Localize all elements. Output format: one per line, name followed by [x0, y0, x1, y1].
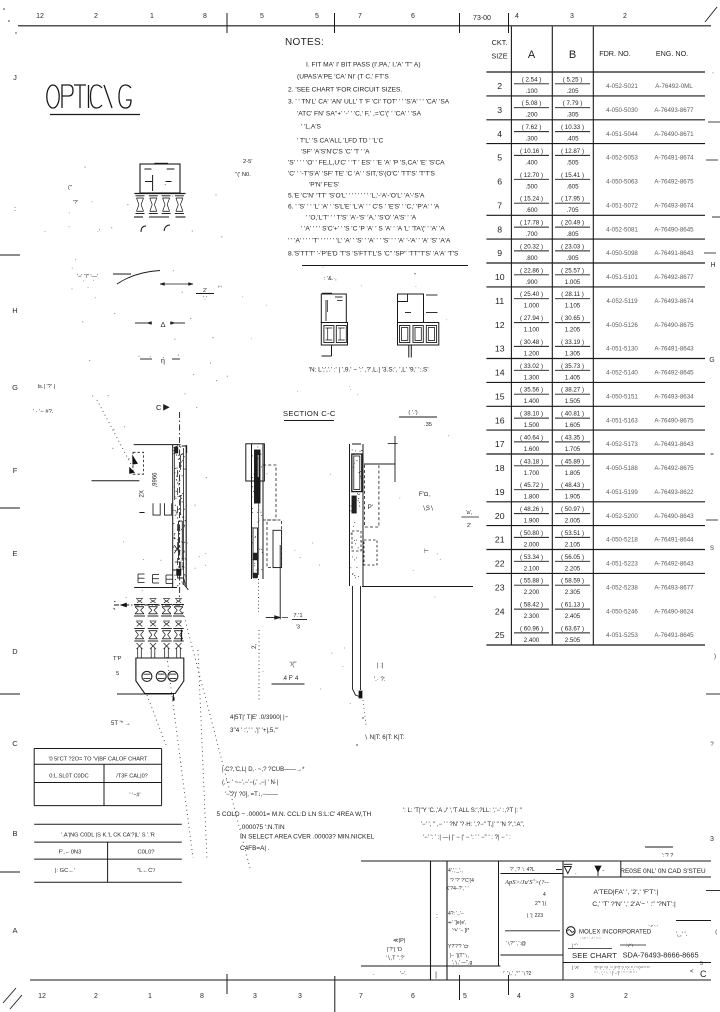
svg-text:4|5T|' T|E′ .0/3900| |−: 4|5T|' T|E′ .0/3900| |−	[230, 714, 289, 721]
svg-text:': L: 'T|′'Y 'C.,'A ,/' ′,'T A: ': L: 'T|′'Y 'C.,'A ,/' ′,'T ALL S:',?LL…	[403, 808, 523, 814]
svg-text:4: 4	[515, 13, 519, 20]
svg-text:( 50.80 ): ( 50.80 )	[520, 530, 543, 537]
svg-text:7: 7	[359, 993, 363, 1000]
svg-text:1.405: 1.405	[565, 374, 581, 381]
svg-text:' 'A' ' ' ' S'C'+' ' 'S 'C 'P: ' 'A' ' ' ' S'C'+' ' 'S 'C 'P 'A' ' S 'A…	[301, 225, 445, 232]
svg-text:.205: .205	[566, 88, 579, 95]
svg-text:1.205: 1.205	[565, 327, 581, 334]
svg-text:( 58.59 ): ( 58.59 )	[561, 578, 584, 585]
svg-text:'3: '3	[296, 625, 300, 631]
svg-text:| 'A': | 'A'	[572, 965, 579, 970]
svg-text:( 17.78 ): ( 17.78 )	[520, 220, 543, 227]
svg-text:2.100: 2.100	[524, 565, 540, 572]
svg-text:.800: .800	[525, 255, 538, 262]
svg-text:.305: .305	[566, 112, 579, 119]
svg-text:'′ ' · ', ' ′· ' |' −′|′ ' ′': '′ ' · ', ' ′· ' |' −′|′ ' ′' ′ ' ′′' '′…	[594, 971, 637, 976]
svg-text:2: 2	[94, 993, 98, 1000]
svg-text:( 38.10 ): ( 38.10 )	[520, 411, 543, 418]
svg-text:':′? ?: ':′? ?	[662, 853, 673, 859]
svg-text:4-050-5063: 4-050-5063	[606, 179, 638, 186]
svg-text:4-050-5246: 4-050-5246	[606, 608, 638, 615]
svg-text:A-76490-8675: A-76490-8675	[654, 322, 694, 329]
svg-text:( 43.18 ): ( 43.18 )	[520, 458, 543, 465]
svg-text:1: 1	[150, 13, 154, 20]
svg-text:'−′ '7' '—′: '−′ '7' '—′	[77, 274, 98, 280]
svg-text:19: 19	[495, 487, 505, 497]
svg-text:<: <	[690, 969, 694, 975]
svg-text:' 'L,A'S: ' 'L,A'S	[301, 123, 322, 130]
svg-text:( 35.56 ): ( 35.56 )	[520, 387, 543, 394]
svg-text:F'Ω,: F'Ω,	[419, 492, 430, 498]
svg-text:): )	[714, 654, 716, 660]
svg-text:'/('′: '/('′	[289, 662, 297, 668]
svg-text:A-76492-8675: A-76492-8675	[654, 179, 694, 186]
svg-text:1.000: 1.000	[524, 303, 540, 310]
svg-text:( 50.97 ): ( 50.97 )	[561, 506, 584, 513]
svg-text:| :|: | :|	[377, 663, 384, 669]
svg-text:16: 16	[495, 415, 505, 425]
svg-text:8.'S'TT'T' '-'P'E'D 'T'S 'S'FT: 8.'S'TT'T' '-'P'E'D 'T'S 'S'FTT'L'S 'C''…	[288, 250, 459, 257]
svg-text:.300: .300	[525, 136, 538, 143]
svg-text:14: 14	[495, 368, 505, 378]
svg-text:( 33.19 ): ( 33.19 )	[561, 339, 584, 346]
svg-text:'′L←C'/: '′L←C'/	[137, 868, 156, 874]
svg-text:NOTES:: NOTES:	[285, 37, 324, 48]
svg-text:A-76493-8677: A-76493-8677	[654, 107, 694, 114]
svg-text:2.405: 2.405	[565, 613, 581, 620]
svg-text:A-76493-8674: A-76493-8674	[654, 202, 694, 209]
svg-text:( 28.11 ): ( 28.11 )	[561, 291, 584, 298]
svg-text:5: 5	[463, 993, 467, 1000]
svg-text:( 35.73 ): ( 35.73 )	[561, 363, 584, 370]
svg-text:.805: .805	[566, 231, 579, 238]
svg-text:A-76493-8674: A-76493-8674	[654, 298, 694, 305]
svg-text:∖ N|T: 6|T: K|T:: ∖ N|T: 6|T: K|T:	[364, 734, 405, 741]
svg-text:1.505: 1.505	[565, 398, 581, 405]
svg-text:2.005: 2.005	[565, 518, 581, 525]
svg-text:∖S∖: ∖S∖	[422, 506, 434, 512]
svg-text:A-76492-8675: A-76492-8675	[654, 465, 694, 472]
svg-text:5: 5	[260, 13, 264, 20]
svg-text:A-76490-8645: A-76490-8645	[654, 226, 694, 233]
svg-text:.705: .705	[566, 207, 579, 214]
svg-text:|'?'( 'D: |'?'( 'D	[387, 947, 402, 953]
svg-text:.000075 ':N.TIN: .000075 ':N.TIN	[240, 824, 285, 831]
svg-text:1.800: 1.800	[524, 494, 540, 501]
svg-text:20: 20	[495, 511, 505, 521]
svg-text:' 'O,'L'T' ' ' T'S' 'A'-'S' 'A: ' 'O,'L'T' ' ' T'S' 'A'-'S' 'A,' 'S'O' '…	[306, 214, 417, 221]
svg-text:?' ,'? '↕ 4?L: ?' ,'? '↕ 4?L	[510, 867, 535, 873]
svg-text:( 30.48 ): ( 30.48 )	[520, 339, 543, 346]
svg-text:⁻⁴' '·': ⁻⁴' '·'	[648, 924, 658, 929]
svg-text:( 55.88 ): ( 55.88 )	[520, 578, 543, 585]
svg-text:4-052-5200: 4-052-5200	[606, 513, 638, 520]
svg-text:( 2.54 ): ( 2.54 )	[522, 76, 542, 83]
svg-text:12: 12	[495, 320, 505, 330]
svg-text:⟨: ⟨	[715, 929, 717, 936]
svg-text:ENG. NO.: ENG. NO.	[656, 49, 688, 58]
svg-text:G: G	[709, 357, 714, 364]
svg-text:15: 15	[495, 391, 505, 401]
svg-text:C0L0?: C0L0?	[137, 850, 155, 856]
svg-text:IN SELECT AREA CVER .00003? MI: IN SELECT AREA CVER .00003? MIN.NICKEL	[240, 834, 375, 841]
svg-text:K'?4−?', ' ': K'?4−?', ' '	[446, 886, 469, 892]
svg-text:A-76490-8643: A-76490-8643	[654, 513, 694, 520]
molex logo and name	[567, 927, 576, 936]
svg-text:.605: .605	[566, 183, 579, 190]
chart table grid and header	[510, 27, 512, 646]
svg-text:5: 5	[116, 671, 119, 677]
svg-text:ʪ.| '?' |: ʪ.| '?' |	[38, 384, 55, 390]
svg-text:.35: .35	[424, 422, 432, 428]
svg-text:C: C	[156, 403, 162, 412]
svg-text:2.300: 2.300	[524, 613, 540, 620]
svg-text:2X: 2X	[140, 490, 146, 497]
svg-text:3: 3	[570, 993, 574, 1000]
svg-text:( 61.13 ): ( 61.13 )	[561, 602, 584, 609]
svg-text:( 20.49 ): ( 20.49 )	[561, 220, 584, 227]
svg-text:⁚√'∖: ⁚√'∖	[626, 943, 634, 948]
svg-text:F′,←0N3: F′,←0N3	[59, 850, 82, 856]
svg-text:A-76493-8677: A-76493-8677	[654, 584, 694, 591]
svg-text:A-76491-8644: A-76491-8644	[654, 537, 694, 544]
svg-text:C,' 'T' ?'N' ',' 2'A'− ' :′' ': C,' 'T' ?'N' ',' 2'A'− ' :′' '?NT':|	[592, 901, 676, 908]
svg-text:A: A	[528, 49, 536, 61]
svg-text:.200: .200	[525, 112, 538, 119]
svg-text:T'P: T'P	[113, 656, 122, 662]
svg-text:4'.','_'.,: 4'.','_'.,	[448, 868, 463, 874]
drawing title OPTIC\ G stencil letters	[47, 85, 59, 108]
svg-text:2: 2	[624, 993, 628, 1000]
svg-text:1.600: 1.600	[524, 446, 540, 453]
svg-text:2.200: 2.200	[524, 589, 540, 596]
small mark above title block	[645, 846, 673, 848]
svg-text:'↷' '− ]l*: '↷' '− ]l*	[452, 928, 469, 934]
svg-text:4-052-5053: 4-052-5053	[606, 155, 638, 162]
svg-text:( 53.34 ): ( 53.34 )	[520, 554, 543, 561]
svg-text:2′: 2′	[467, 523, 471, 529]
svg-text:MOLEX INCORPORATED: MOLEX INCORPORATED	[579, 930, 652, 936]
svg-text:7: 7	[358, 13, 362, 20]
svg-text:1.005: 1.005	[565, 279, 581, 286]
svg-text:4-051-5101: 4-051-5101	[606, 274, 638, 281]
svg-text:.700: .700	[525, 231, 538, 238]
svg-text:4-052-5173: 4-052-5173	[606, 441, 638, 448]
svg-text:( 43.35 ): ( 43.35 )	[561, 434, 584, 441]
svg-text:12: 12	[38, 993, 46, 1000]
svg-text:'.· ?:: '.· ?:	[374, 677, 386, 683]
svg-text:⊢: ⊢	[424, 548, 429, 555]
svg-text:( 63.67 ): ( 63.67 )	[561, 625, 584, 632]
terminal pins rows 2-3	[137, 622, 143, 627]
svg-text:4-052-5119: 4-052-5119	[606, 298, 638, 305]
svg-text:J: J	[13, 73, 17, 82]
svg-text:5 COLD − .00001= M.N. CCL:D LN: 5 COLD − .00001= M.N. CCL:D LN S:L:C' 4R…	[217, 811, 372, 818]
svg-text:FDR. NO.: FDR. NO.	[599, 49, 631, 58]
svg-text:,9966: ,9966	[153, 472, 159, 488]
svg-text:: '&.·,: : '&.·,	[324, 276, 337, 282]
svg-text:=: =	[710, 452, 714, 458]
svg-text:'N: L';','.' :' | ',9.' ~ ':': 'N: L';','.' :' | ',9.' ~ ':' ,?',L.| '3…	[309, 367, 429, 374]
svg-text:( 5.08 ): ( 5.08 )	[522, 100, 542, 107]
svg-text:17: 17	[495, 439, 505, 449]
svg-text:E: E	[12, 549, 17, 558]
svg-text:A: A	[12, 926, 17, 935]
svg-text:4-052-5238: 4-052-5238	[606, 584, 638, 591]
svg-text:'∖,T ''.?': '∖,T ''.?'	[386, 956, 405, 962]
svg-text:'.A'|NG C0DL |S K.'L CK CA'?|L: '.A'|NG C0DL |S K.'L CK CA'?|L' S '.'R	[61, 833, 155, 839]
svg-text:( 38.27 ): ( 38.27 )	[561, 387, 584, 394]
svg-text:A-76492-8643: A-76492-8643	[654, 561, 694, 568]
svg-text:( 45.72 ): ( 45.72 )	[520, 482, 543, 489]
svg-text:SEE CHART: SEE CHART	[572, 951, 617, 960]
svg-text:11: 11	[495, 296, 504, 306]
svg-text:A-76491-8643: A-76491-8643	[654, 346, 694, 353]
svg-text:( 27.94 ): ( 27.94 )	[520, 315, 543, 322]
svg-text:4-051-5253: 4-051-5253	[606, 632, 638, 639]
svg-text:| C?,'C,L| D,· ~,? ?CUB——→*: | C?,'C,L| D,· ~,? ?CUB——→*	[222, 767, 305, 773]
svg-text:4-050-5151: 4-050-5151	[606, 393, 638, 400]
svg-text:SECTION C-C: SECTION C-C	[283, 409, 336, 418]
svg-text:C4FB=A| .: C4FB=A| .	[240, 845, 270, 852]
svg-text:( 56.05 ): ( 56.05 )	[561, 554, 584, 561]
svg-text:4-052-5021: 4-052-5021	[606, 83, 638, 90]
svg-text:( 15.24 ): ( 15.24 )	[520, 196, 543, 203]
svg-text:12: 12	[36, 13, 44, 20]
svg-text:.900: .900	[525, 279, 538, 286]
svg-text:A-76493-8622: A-76493-8622	[654, 489, 694, 496]
svg-text:( 10.16 ): ( 10.16 )	[520, 148, 543, 155]
svg-text::: :	[436, 913, 438, 920]
svg-text:3. ' ' TN'L' CA' 'AN' ULL' T ': 3. ' ' TN'L' CA' 'AN' ULL' T 'F 'CI' TOT…	[288, 98, 450, 105]
svg-text:.500: .500	[525, 183, 538, 190]
svg-text:( 58.42 ): ( 58.42 )	[520, 602, 543, 609]
svg-text:( 40.81 ): ( 40.81 )	[561, 411, 584, 418]
section view 1 (middle)	[246, 444, 265, 481]
svg-text:' T'L' 'S CA'ALL 'LFD TD ' 'L': ' T'L' 'S CA'ALL 'LFD TD ' 'L'C	[297, 137, 384, 144]
svg-text:4-050-5218: 4-050-5218	[606, 537, 638, 544]
svg-text:( '.′): ( '.′)	[408, 410, 417, 416]
svg-text:2: 2	[623, 13, 627, 20]
svg-text:H: H	[710, 262, 715, 269]
svg-text:2.305: 2.305	[565, 589, 581, 596]
svg-text:( 23.03 ): ( 23.03 )	[561, 243, 584, 250]
svg-text:1.105: 1.105	[565, 303, 581, 310]
svg-text:13: 13	[495, 344, 505, 354]
svg-text:'0 5l'CT ?2O= TO 'V|BF CALOF C: '0 5l'CT ?2O= TO 'V|BF CALOF CHART	[48, 757, 147, 763]
svg-text:( 30.65 ): ( 30.65 )	[561, 315, 584, 322]
svg-text:.: .	[575, 870, 577, 876]
svg-text:( 25.57 ): ( 25.57 )	[561, 267, 584, 274]
svg-text:B: B	[12, 829, 17, 838]
svg-text:.505: .505	[566, 159, 579, 166]
svg-text:−: −	[602, 868, 605, 874]
svg-text:4-050-5126: 4-050-5126	[606, 322, 638, 329]
svg-text:'C' ' '-T'S'A' 'SF' TE' 'C 'A': 'C' ' '-T'S'A' 'SF' TE' 'C 'A' ' SIT,'S'…	[288, 170, 436, 177]
svg-text:1.705: 1.705	[565, 446, 581, 453]
svg-text:' ′·′′' ' ' ·′' ' '′·' ′: ' ′·′′' ' ' ·′' ' '′·' ′	[580, 937, 602, 941]
svg-text:4-051-5044: 4-051-5044	[606, 131, 638, 138]
svg-text:( 22.86 ): ( 22.86 )	[520, 267, 543, 274]
svg-text:6: 6	[411, 13, 415, 20]
svg-text:2. 'SEE CHART 'FOR CIRCUIT SIZ: 2. 'SEE CHART 'FOR CIRCUIT SIZES.	[288, 86, 402, 93]
svg-text:C: C	[12, 739, 18, 748]
svg-text:P': P'	[368, 504, 374, 511]
svg-text:.100: .100	[525, 88, 538, 95]
svg-text:'?': '?'	[73, 200, 78, 206]
svg-text:4-051-5223: 4-051-5223	[606, 561, 638, 568]
svg-text:5.'E 'C'N' 'TT' 'S'O'L' ' ' ': 5.'E 'C'N' 'TT' 'S'O'L' ' ' ' ' ' ' ' 'L…	[288, 192, 425, 199]
svg-text:0:L.SL0T C0DC: 0:L.SL0T C0DC	[49, 774, 88, 780]
svg-text:3: 3	[253, 993, 257, 1000]
svg-text:4-052-5081: 4-052-5081	[606, 226, 638, 233]
svg-text:G: G	[12, 383, 18, 392]
svg-text:1.700: 1.700	[524, 470, 540, 477]
svg-text:ή: ή	[161, 358, 165, 365]
svg-text:·′: ·′	[97, 229, 100, 235]
svg-text:'ATC' FN' SA''+' '-' ' 'C,' F,: 'ATC' FN' SA''+' '-' ' 'C,' F,' ,='C'(' …	[297, 110, 422, 117]
svg-text:(,'− ' ~−',−'−(,' ,−| ' N·|: (,'− ' ~−',−'−(,' ,−| ' N·|	[222, 780, 279, 786]
svg-text:1.805: 1.805	[565, 470, 581, 477]
svg-text:`: `	[712, 73, 714, 80]
svg-text:18: 18	[495, 463, 505, 473]
svg-text:( 12.70 ): ( 12.70 )	[520, 172, 543, 179]
svg-text:4: 4	[517, 993, 521, 1000]
title block frame	[361, 860, 711, 862]
connector front view (top left)	[140, 164, 180, 193]
svg-text:A-76492-8677: A-76492-8677	[654, 274, 694, 281]
svg-text:4-051-5072: 4-051-5072	[606, 202, 638, 209]
svg-text:2.205: 2.205	[565, 565, 581, 572]
svg-text:1.905: 1.905	[565, 494, 581, 501]
svg-text:'P'N' FE'S': 'P'N' FE'S'	[309, 181, 339, 188]
svg-text:?: ?	[710, 742, 714, 748]
svg-text:4: 4	[543, 892, 546, 898]
svg-text:.400: .400	[525, 159, 538, 166]
svg-text:( 10.33 ): ( 10.33 )	[561, 124, 584, 131]
svg-text:( 60.96 ): ( 60.96 )	[520, 625, 543, 632]
sheet border frame lines and ticks	[18, 25, 711, 27]
svg-text:6. ' 'S' ' ' 'L' 'A' ' 'S'L'E': 6. ' 'S' ' ' 'L' 'A' ' 'S'L'E' 'L'A' ' '…	[288, 203, 440, 210]
svg-text:4 F′ 4: 4 F′ 4	[284, 676, 299, 682]
svg-text:/T3F CAL|0?: /T3F CAL|0?	[116, 774, 148, 780]
svg-text:1.305: 1.305	[565, 350, 581, 357]
svg-text:4-051-5199: 4-051-5199	[606, 489, 638, 496]
svg-text:1.605: 1.605	[565, 422, 581, 429]
svg-text:4-052-5140: 4-052-5140	[606, 370, 638, 377]
svg-text:'? '?' ?'C'(4: '? '?' ?'C'(4	[450, 878, 474, 884]
svg-text:'S' ' ' ' 'O' ' FE,L,U'C' ' 'T: 'S' ' ' ' 'O' ' FE,L,U'C' ' 'T ' ES' ' '…	[288, 159, 445, 166]
svg-text:1.900: 1.900	[524, 518, 540, 525]
svg-text:73-00: 73-00	[473, 15, 491, 22]
svg-text:.600: .600	[525, 207, 538, 214]
svg-text:6: 6	[497, 177, 502, 187]
svg-text:2,: 2,	[251, 643, 258, 649]
small connector detail view left (2 ckt)	[321, 294, 346, 323]
svg-text:F: F	[13, 466, 18, 475]
svg-text:7.'1: 7.'1	[293, 613, 302, 619]
svg-text:3′'4 ' :′,' ' ,'|' '+|,5,'′′: 3′'4 ' :′,' ' ,'|' '+|,5,'′′	[230, 727, 279, 734]
see chart drawing number	[568, 948, 612, 950]
svg-text:25: 25	[495, 630, 505, 640]
svg-text:A-76491-8643: A-76491-8643	[654, 441, 694, 448]
svg-text:',∖,' ―'',g: ',∖,' ―'',g	[452, 960, 473, 966]
svg-text:'.′: '.′	[203, 296, 207, 302]
dotted leader fan lines	[183, 612, 250, 868]
svg-text:1.200: 1.200	[524, 350, 540, 357]
svg-text:|− '|(T''∖,: |− '|(T''∖,	[450, 953, 469, 959]
svg-text:Y?'?'? '℺: Y?'?'? '℺	[448, 944, 469, 950]
svg-text:10: 10	[495, 272, 505, 282]
svg-text:4-050-5188: 4-050-5188	[606, 465, 638, 472]
svg-text:4?: ',.'−: 4?: ',.'−	[448, 911, 464, 917]
svg-text:('′: ('′	[68, 185, 72, 191]
svg-text:8: 8	[203, 13, 207, 20]
svg-text:.: .	[373, 971, 375, 977]
svg-text:Δ: Δ	[160, 320, 165, 329]
svg-text:1.300: 1.300	[524, 374, 540, 381]
svg-text:( 48.43 ): ( 48.43 )	[561, 482, 584, 489]
svg-text:8: 8	[497, 224, 502, 234]
svg-text:.405: .405	[566, 136, 579, 143]
svg-text:3: 3	[570, 13, 574, 20]
small connector detail view right (3 ckt)	[398, 294, 424, 323]
svg-text:1.500: 1.500	[524, 422, 540, 429]
svg-text:A-76490-8671: A-76490-8671	[654, 131, 694, 138]
svg-text:S: S	[710, 546, 714, 552]
svg-text:A-76491-8643: A-76491-8643	[654, 250, 694, 257]
svg-text:′−'?)' ?0], =T↓,−——: ′−'?)' ?0], =T↓,−——	[225, 792, 278, 798]
svg-text:( 48.26 ): ( 48.26 )	[520, 506, 543, 513]
svg-text:A-76490-8624: A-76490-8624	[654, 608, 694, 615]
svg-text:5: 5	[497, 153, 502, 163]
svg-text:( 7.62 ): ( 7.62 )	[522, 124, 542, 131]
svg-text:5: 5	[700, 961, 703, 967]
svg-text:'−′ ': ' :| —| |' − |' − ': ': '−′ ': ' :| —| |' − |' − ': ' ' −′′ ' : …	[423, 835, 511, 841]
svg-text:2: 2	[497, 81, 502, 91]
svg-text:( 45.89 ): ( 45.89 )	[561, 458, 584, 465]
svg-text:A-76491-8645: A-76491-8645	[654, 632, 694, 639]
svg-text:2.105: 2.105	[565, 541, 581, 548]
svg-text:( 5.25 ): ( 5.25 )	[563, 76, 583, 83]
svg-text:2.505: 2.505	[565, 637, 581, 644]
svg-text:|: |	[435, 972, 437, 979]
svg-text:3: 3	[298, 993, 302, 1000]
svg-text:'−′ ', '′ ,− ' ' ?N' '?·H: ′,?: '−′ ', '′ ,− ' ' ?N' '?·H: ′,?−′' T,|' '…	[421, 822, 525, 828]
svg-text:⌜ '∖.' ,'⌜' '∖?2: ⌜ '∖.' ,'⌜' '∖?2	[503, 971, 532, 977]
svg-text:2.000: 2.000	[524, 541, 540, 548]
svg-text:7: 7	[497, 200, 502, 210]
plating color table	[34, 823, 182, 825]
svg-text:3: 3	[497, 105, 502, 115]
svg-text:1.400: 1.400	[524, 398, 540, 405]
svg-text:( 17.95 ): ( 17.95 )	[561, 196, 584, 203]
svg-text:1.100: 1.100	[524, 327, 540, 334]
svg-text:RE0SE 0NL′ 0N CAD S′STEU: RE0SE 0NL′ 0N CAD S′STEU	[620, 868, 706, 875]
svg-text:( 15.41 ): ( 15.41 )	[561, 172, 584, 179]
svg-text:( 20.32 ): ( 20.32 )	[520, 243, 543, 250]
svg-text:' · '− #?.: ' · '− #?.	[33, 409, 54, 415]
section view 2 (right) with wire tail	[349, 444, 351, 586]
svg-text:' '−#': ' '−#'	[129, 793, 140, 799]
svg-text:.905: .905	[566, 255, 579, 262]
svg-text:2.400: 2.400	[524, 637, 540, 644]
svg-text:H: H	[12, 306, 17, 315]
svg-text:I. FIT MA' I' BIT PASS (I'.PA,: I. FIT MA' I' BIT PASS (I'.PA,' I,'A' 'T…	[306, 61, 421, 68]
svg-text:2'* '⌊⌊: 2'* '⌊⌊	[535, 901, 547, 907]
svg-text:B: B	[569, 49, 576, 61]
svg-text:( 40.64 ): ( 40.64 )	[520, 434, 543, 441]
